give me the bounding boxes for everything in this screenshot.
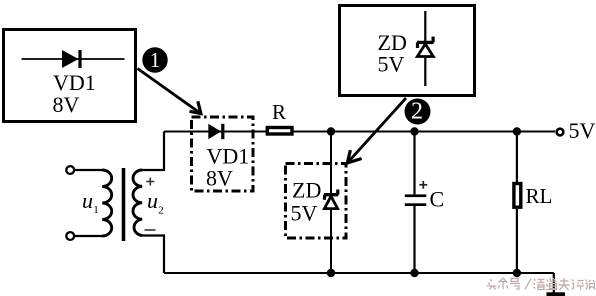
wire primary top lead (75, 169, 103, 171)
capacitor C (405, 132, 427, 274)
wire ground drop (553, 273, 555, 293)
zener diode ZD (callout symbol) (417, 11, 434, 86)
svg-text:8V: 8V (53, 92, 80, 117)
terminal primary bottom (66, 232, 74, 240)
junction bottom-capacitor node (410, 269, 418, 277)
transformer secondary winding (133, 170, 142, 236)
dash-dot box around VD1 (192, 117, 254, 191)
resistor R (267, 128, 292, 135)
terminal output 5V (557, 129, 564, 136)
dash-dot box around ZD (286, 164, 347, 239)
junction top-zener node (327, 127, 335, 135)
wire secondary top lead (142, 132, 164, 171)
diode VD1 (callout symbol) (22, 50, 125, 68)
svg-text:R: R (272, 100, 286, 124)
svg-text:RL: RL (526, 184, 553, 208)
callout box 1 (VD1 detail) (4, 30, 136, 122)
svg-text:1: 1 (93, 204, 99, 216)
polarity minus (secondary) (145, 229, 156, 231)
wire primary bottom lead (75, 235, 103, 237)
numbered marker 2 (405, 99, 431, 125)
arrow from marker 2 to zener ZD (347, 98, 406, 163)
callout box 2 (ZD detail) (340, 6, 475, 96)
ground (547, 292, 566, 296)
zener diode ZD (circuit) (324, 190, 338, 209)
polarity plus (secondary) (146, 178, 154, 186)
junction bottom-zener node (327, 269, 335, 277)
svg-text:2: 2 (158, 205, 164, 217)
polarity plus (capacitor) (419, 181, 427, 189)
terminal primary top (66, 166, 74, 174)
svg-text:2: 2 (411, 99, 423, 125)
svg-text:5V: 5V (291, 201, 318, 226)
label u2 (147, 188, 164, 217)
junction bottom-load node (513, 269, 521, 277)
wire zener branch (330, 132, 332, 274)
transformer core (122, 168, 126, 241)
wire bottom rail (164, 272, 554, 274)
label u1 (82, 188, 99, 216)
arrow from marker 1 to diode VD1 (138, 69, 201, 114)
resistor RL (514, 132, 521, 274)
watermark 头条号 / 清道夫评说 (487, 278, 596, 290)
transformer primary winding (102, 170, 112, 236)
junction top-load node (513, 127, 521, 135)
svg-text:5V: 5V (378, 52, 405, 77)
wire secondary bottom lead (142, 236, 164, 274)
numbered marker 1 (142, 47, 167, 72)
svg-text:u: u (82, 188, 93, 213)
svg-text:ZD: ZD (292, 178, 321, 203)
svg-text:8V: 8V (206, 166, 233, 191)
svg-text:5V: 5V (569, 118, 596, 143)
junction top-capacitor node (410, 127, 418, 135)
diode VD1 (circuit) (208, 124, 223, 139)
svg-text:u: u (147, 188, 158, 213)
svg-text:C: C (430, 187, 445, 212)
wire top rail (164, 131, 555, 133)
svg-text:1: 1 (150, 48, 161, 72)
